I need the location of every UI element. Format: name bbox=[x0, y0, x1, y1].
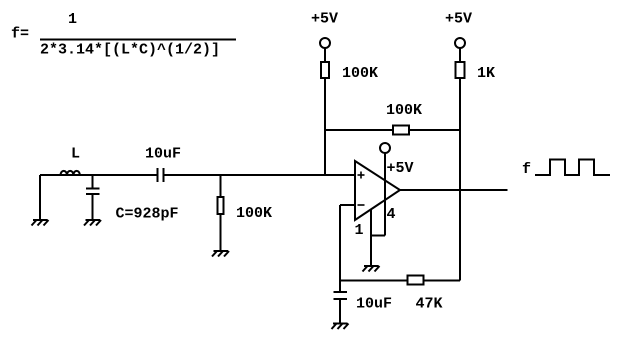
svg-text:f: f bbox=[522, 161, 531, 178]
svg-text:f=: f= bbox=[11, 26, 29, 43]
svg-text:47K: 47K bbox=[416, 296, 443, 313]
svg-text:100K: 100K bbox=[236, 205, 272, 222]
svg-text:100K: 100K bbox=[386, 102, 422, 119]
svg-text:100K: 100K bbox=[342, 65, 378, 82]
svg-text:2*3.14*[(L*C)^(1/2)]: 2*3.14*[(L*C)^(1/2)] bbox=[40, 42, 220, 59]
svg-text:+5V: +5V bbox=[387, 160, 414, 177]
svg-text:C=928pF: C=928pF bbox=[116, 206, 179, 223]
svg-text:1K: 1K bbox=[477, 65, 495, 82]
svg-text:4: 4 bbox=[387, 206, 396, 223]
svg-text:+5V: +5V bbox=[445, 11, 472, 28]
svg-text:1: 1 bbox=[68, 11, 77, 28]
svg-text:+5V: +5V bbox=[311, 11, 338, 28]
svg-text:10uF: 10uF bbox=[145, 146, 181, 163]
svg-text:10uF: 10uF bbox=[356, 296, 392, 313]
svg-text:1: 1 bbox=[355, 222, 364, 239]
svg-text:L: L bbox=[71, 146, 80, 163]
